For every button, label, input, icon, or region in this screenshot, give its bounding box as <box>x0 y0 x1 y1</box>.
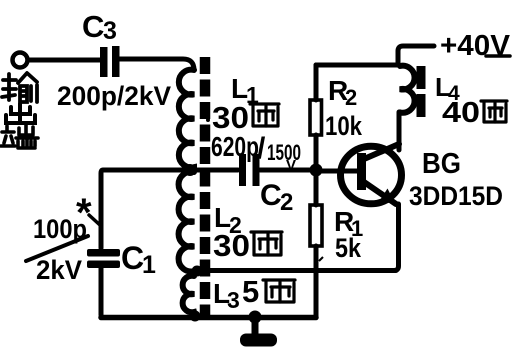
transistor collector stroke <box>364 144 399 159</box>
ground symbol <box>249 311 262 324</box>
svg-text:3: 3 <box>227 287 240 313</box>
label 出 <box>6 104 35 123</box>
svg-text:30: 30 <box>213 228 250 263</box>
svg-text:2: 2 <box>280 189 293 216</box>
capacitor C3 plates <box>100 46 120 77</box>
glyph 匝 (L1) <box>250 104 279 126</box>
wire C2 to base node <box>260 168 316 173</box>
svg-text:V: V <box>286 157 296 174</box>
wire tap1 to C2 <box>194 168 238 173</box>
svg-text:100p: 100p <box>33 214 87 244</box>
svg-text:40: 40 <box>442 97 480 129</box>
speck dot before 30 <box>206 118 210 122</box>
capacitor C1 plates <box>87 249 120 268</box>
svg-text:5k: 5k <box>335 233 362 263</box>
emitter arrow <box>379 189 396 204</box>
terminal 输出端 (output terminal circle) <box>13 53 28 68</box>
wire terminal to C3 <box>28 58 100 63</box>
wire tap2 to emitter (horizontal) <box>198 268 396 273</box>
glyph 匝 (L2) <box>251 232 282 255</box>
inductor L1 (top winding, 30 turns) <box>179 70 194 171</box>
transistor Q1 circle <box>341 146 402 204</box>
capacitor C2 plates <box>239 154 260 186</box>
svg-text:+40V: +40V <box>440 30 511 62</box>
wire base node to transistor base <box>320 169 357 174</box>
svg-text:3: 3 <box>103 17 117 45</box>
svg-text:3DD15D: 3DD15D <box>409 181 503 211</box>
top supply wire R2 to L4 node <box>316 63 398 68</box>
svg-text:10k: 10k <box>325 111 363 141</box>
inductor L4 (40 turns) <box>400 66 415 113</box>
resistor R1 leads <box>314 176 319 316</box>
svg-text:30: 30 <box>212 100 249 135</box>
transistor emitter stroke <box>364 182 396 204</box>
speck tick near R1 <box>319 257 323 261</box>
+40V underline <box>486 54 510 58</box>
node base junction <box>310 164 323 177</box>
node tap2 (L2/L3 junction) <box>192 266 203 277</box>
wire C1 bottom to ground rail <box>99 268 104 315</box>
svg-text:620p: 620p <box>211 131 259 162</box>
wire emitter down <box>394 204 399 271</box>
svg-text:BG: BG <box>422 148 461 180</box>
svg-text:C: C <box>260 179 282 212</box>
inductor L2 (middle winding, 30 turns) <box>179 172 194 272</box>
transistor base bar <box>357 153 366 190</box>
wire C3 to coil top <box>120 59 195 70</box>
leader line from asterisk to C1 wire <box>89 215 101 226</box>
glyph 匝 (L4) <box>481 101 507 122</box>
resistor R1 body <box>310 205 322 246</box>
svg-text:1: 1 <box>142 251 156 279</box>
svg-text:C: C <box>121 240 144 276</box>
glyph 匝 (L3) <box>263 280 295 302</box>
svg-text:2kV: 2kV <box>36 255 82 285</box>
svg-text:5: 5 <box>242 274 259 309</box>
svg-text:2: 2 <box>345 85 357 110</box>
L4 core (dashed) <box>417 66 426 117</box>
inductor L3 (bottom winding, 5 turns) <box>183 276 195 316</box>
svg-text:200p/2kV: 200p/2kV <box>57 81 171 111</box>
resistor R2 body <box>310 100 322 135</box>
bottom ground rail wire <box>101 315 316 321</box>
node coil bottom on ground rail <box>190 311 201 322</box>
fraction slash 100p/2kV <box>26 236 88 261</box>
label 输 <box>2 73 37 102</box>
resistor R2 leads <box>314 65 319 165</box>
+40V feed wire <box>398 46 434 64</box>
transformer core (dashed) <box>200 57 211 316</box>
svg-text:/: / <box>257 132 266 165</box>
label 端 <box>1 125 38 148</box>
wire L4 to collector <box>397 112 402 150</box>
svg-text:C: C <box>82 9 104 44</box>
node tap1 (L1/L2 junction) <box>184 164 196 176</box>
wire tap1 to C1 branch <box>101 170 188 248</box>
